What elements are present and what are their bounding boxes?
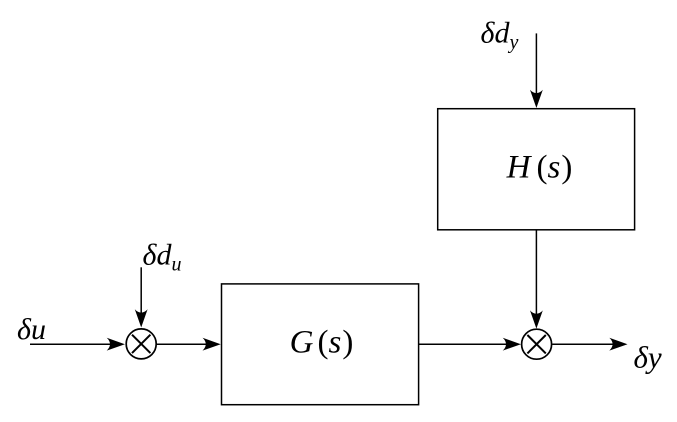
svg-text:δu: δu	[17, 313, 46, 346]
wire disturbance arrow down into left junction	[135, 267, 148, 327]
summing junction left (multiplier)	[126, 329, 156, 359]
svg-text:δdu: δdu	[143, 239, 182, 276]
svg-text:δy: δy	[634, 340, 662, 375]
wire disturbance arrow down into H block	[530, 33, 543, 108]
wire left junction to G block	[156, 338, 221, 351]
summing junction right (multiplier)	[522, 329, 552, 359]
block H(s)	[438, 109, 635, 230]
svg-text:G(s): G(s)	[290, 325, 354, 361]
label delta-d-y disturbance	[481, 17, 519, 54]
block G(s)	[222, 284, 419, 405]
svg-text:δdy: δdy	[481, 17, 519, 54]
wire G block to right junction	[419, 338, 521, 351]
wire output arrow from right junction	[552, 338, 627, 351]
label delta-y output	[634, 340, 662, 375]
label delta-u input	[17, 313, 46, 346]
wire input arrow into left junction	[30, 338, 125, 351]
label delta-d-u disturbance	[143, 239, 182, 276]
svg-text:H(s): H(s)	[506, 150, 573, 186]
wire H block down to right junction	[530, 230, 543, 329]
